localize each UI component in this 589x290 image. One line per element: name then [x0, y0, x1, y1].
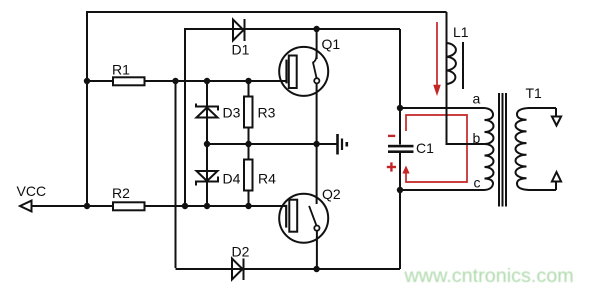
- secondary output arrow top: [552, 117, 561, 126]
- svg-text:D3: D3: [223, 105, 241, 121]
- inductor L1: [447, 43, 456, 84]
- svg-text:VCC: VCC: [17, 183, 47, 199]
- Q2 switch contact ring: [314, 226, 319, 231]
- wire Q1 source to Q2 drain: [316, 84, 318, 204]
- svg-text:D1: D1: [232, 42, 250, 58]
- Q2 gate bar: [285, 205, 287, 228]
- wire left rail: [86, 11, 88, 206]
- svg-text:b: b: [473, 130, 481, 146]
- svg-text:D4: D4: [223, 171, 241, 187]
- wire L1 column to b tap: [447, 12, 485, 144]
- Q1 channel plate: [289, 56, 297, 89]
- wire Q2 source down: [316, 231, 318, 269]
- wire bottom row: [176, 268, 401, 270]
- svg-text:C1: C1: [416, 140, 434, 156]
- Q1 gate bar: [285, 60, 287, 84]
- wire inner-left vertical: [184, 28, 186, 206]
- transistor Q1: [279, 47, 328, 96]
- wire mid ground row: [207, 143, 337, 145]
- wire top rail: [86, 11, 447, 13]
- svg-text:Q1: Q1: [322, 36, 341, 52]
- wire right column through C1: [399, 29, 401, 269]
- ground: [338, 134, 347, 155]
- transformer T1 secondary winding: [516, 108, 557, 190]
- wire R1-to-D2 vertical: [175, 81, 177, 268]
- svg-text:www.cntronics.com: www.cntronics.com: [404, 265, 574, 287]
- svg-text:L1: L1: [453, 24, 469, 40]
- secondary output lead top: [555, 108, 557, 116]
- transistor Q2: [279, 194, 328, 243]
- wire R3 R4 column: [248, 81, 250, 206]
- transformer T1 primary winding: [484, 108, 494, 190]
- Q2 channel plate: [289, 200, 297, 232]
- svg-text:R2: R2: [112, 185, 130, 201]
- resistor R3: [244, 97, 253, 128]
- wire R1 row: [87, 80, 287, 82]
- capacitor C1 plates: [388, 145, 414, 148]
- capacitor C1 polarity minus (red): [388, 135, 395, 137]
- resistor R2: [113, 202, 145, 210]
- capacitor C1 polarity plus (red): [387, 162, 396, 171]
- zener diode D3: [196, 104, 218, 118]
- svg-text:R3: R3: [258, 105, 276, 121]
- resistor R4: [244, 160, 253, 191]
- Q2 switch blade: [309, 206, 317, 226]
- svg-text:c: c: [474, 175, 481, 191]
- transformer T1 core: [499, 93, 506, 207]
- resistor R1: [113, 77, 145, 85]
- wire node c row: [400, 189, 484, 191]
- svg-text:T1: T1: [526, 85, 543, 101]
- secondary output lead bottom: [555, 182, 557, 190]
- svg-text:Q2: Q2: [322, 186, 341, 202]
- svg-text:R1: R1: [112, 62, 130, 78]
- svg-text:R4: R4: [258, 171, 276, 187]
- Q1 switch blade: [313, 55, 317, 78]
- wire D3 D4 column: [206, 81, 208, 206]
- diode D1: [233, 19, 245, 41]
- wire VCC / R2 row: [31, 205, 287, 207]
- VCC arrow: [20, 201, 32, 212]
- diode D2: [232, 259, 244, 281]
- wire node a row: [400, 107, 484, 109]
- svg-text:a: a: [473, 91, 481, 107]
- L1 core bar: [462, 42, 464, 89]
- current arrow (red) through L1 branch: [436, 22, 438, 85]
- wire Q1 drain stub: [316, 29, 318, 59]
- wire D1 row: [184, 28, 400, 30]
- Q1 switch contact ring: [314, 78, 319, 83]
- svg-text:D2: D2: [232, 244, 250, 260]
- zener diode D4: [196, 171, 218, 186]
- current loop (red) around C1 and winding a-c: [406, 115, 467, 182]
- secondary output arrow bottom: [552, 172, 561, 182]
